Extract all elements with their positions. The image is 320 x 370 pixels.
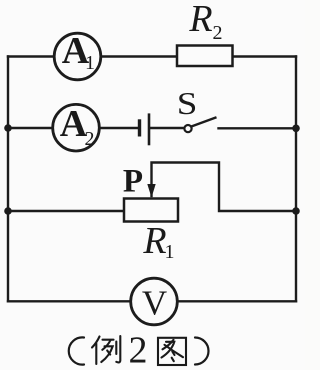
junction node left row2 [4, 124, 12, 132]
wire row2 left segment [8, 127, 53, 129]
voltmeter V [131, 278, 178, 325]
svg-text:R: R [188, 0, 212, 40]
svg-text:S: S [177, 86, 198, 121]
battery (cell) [140, 113, 150, 145]
wire slider: up from arrow, right, down, to right rail [152, 163, 297, 212]
svg-text:1: 1 [85, 52, 95, 74]
svg-text:2: 2 [129, 330, 148, 370]
ammeter A2 [53, 103, 100, 151]
rheostat R1 [124, 199, 178, 264]
ammeter A1 [54, 30, 101, 80]
svg-text:1: 1 [165, 241, 175, 263]
wiper arrow P [123, 164, 156, 200]
svg-text:2: 2 [213, 22, 223, 44]
wire row2 switch-to-right-rail segment [219, 127, 297, 129]
svg-text:R: R [142, 220, 166, 262]
wire top left segment [8, 55, 54, 57]
wire right rail [295, 57, 297, 302]
junction node right row2 [292, 125, 300, 133]
caption open paren [69, 337, 84, 364]
wire bottom right segment [177, 300, 296, 302]
wire left rail [7, 57, 9, 302]
caption close paren [195, 338, 209, 365]
caption glyph 图 [158, 338, 186, 365]
wire top middle segment (A1 to R2) [101, 55, 177, 57]
junction node right row3 [292, 207, 300, 215]
caption glyph 例 [92, 336, 120, 364]
caption "（例 2 图）" [69, 336, 209, 365]
wire top right segment (R2 to corner) [233, 55, 297, 57]
switch S [177, 86, 217, 132]
wire row2 A2-to-battery segment [99, 127, 139, 129]
wire row2 battery-to-switch segment [150, 127, 184, 129]
svg-text:P: P [123, 164, 143, 200]
svg-text:2: 2 [85, 128, 95, 150]
wire bottom left segment [8, 300, 131, 302]
resistor R2 [177, 0, 233, 66]
junction node left row3 [4, 207, 12, 215]
wire row3 left segment to R1 [8, 210, 124, 212]
svg-text:V: V [142, 284, 167, 323]
